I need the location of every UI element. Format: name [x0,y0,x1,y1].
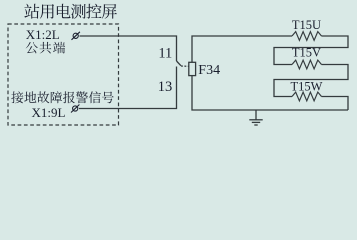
svg-text:T15U: T15U [292,18,321,32]
terminal X1:2L [72,32,80,40]
resistor T15W [292,92,322,101]
label 公共端 (common terminal) [26,42,65,54]
svg-text:X1:2L: X1:2L [26,27,60,42]
label 接地故障报警信号 (earth-fault alarm signal) [11,91,113,103]
wire contact (node 13) to X1:9L [79,67,177,109]
wire F34 branch upper [192,36,292,62]
wire X1:2L to contact (node 11) [80,36,177,61]
terminal X1:9L [71,105,79,113]
svg-text:11: 11 [158,46,172,62]
wire T15U to T15V [274,36,348,65]
resistor T15U [292,32,322,41]
svg-text:F34: F34 [198,63,220,78]
wire T15W to bottom rail [322,97,349,111]
ground symbol [249,110,262,125]
svg-text:T15W: T15W [291,79,323,93]
dashed actuator link to F34 [181,65,189,67]
wire F34 branch lower [192,76,348,110]
device F34 (insulation monitor) [189,62,196,75]
svg-text:T15V: T15V [292,45,321,59]
svg-text:13: 13 [158,79,173,95]
contact blade (F34 NO contact, pins 11-13) [177,61,181,66]
svg-text:X1:9L: X1:9L [32,105,66,120]
wire T15V to T15W [274,65,348,97]
label 站用电测控屏 (station AC power measuring-control panel) [24,4,117,19]
dashed panel boundary box [8,24,119,125]
resistor T15V [292,60,322,69]
